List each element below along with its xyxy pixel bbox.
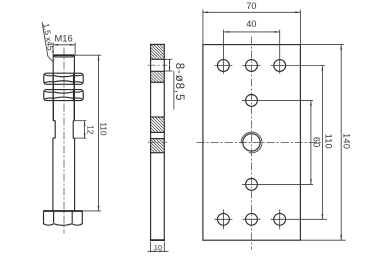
svg-text:10: 10 [154, 243, 162, 252]
hole C3 [274, 213, 286, 225]
svg-text:70: 70 [246, 1, 256, 11]
hex nut 2 [44, 90, 83, 101]
center hole M16 [241, 132, 262, 153]
svg-text:8-ø8,5: 8-ø8,5 [173, 63, 185, 102]
svg-text:40: 40 [246, 19, 256, 29]
110 dimension [322, 66, 324, 220]
centerline bolt [63, 48, 65, 234]
chamfer leader 1,5x45 [42, 22, 48, 57]
40 dimension [223, 31, 279, 33]
neck [54, 121, 56, 138]
hole A2 [246, 60, 258, 72]
vertical centerline column [251, 37, 253, 250]
neck step bottom [53, 137, 56, 139]
140 dimension [340, 45, 342, 241]
svg-text:12: 12 [86, 125, 95, 135]
hole A1 [218, 60, 230, 72]
shaft [52, 138, 54, 211]
svg-text:110: 110 [98, 122, 108, 136]
side view outline [151, 44, 165, 240]
hex nut 1 [44, 73, 83, 84]
hatch band 1 [151, 44, 164, 59]
10 dimension [147, 242, 168, 253]
8-o8,5 callout [164, 59, 174, 109]
centerline middle [148, 141, 168, 143]
hex head [43, 211, 82, 225]
svg-text:140: 140 [342, 133, 352, 149]
70 dimension [203, 10, 301, 45]
stud threaded body [53, 55, 75, 121]
svg-text:M16: M16 [55, 33, 73, 43]
hatch band 2 [151, 71, 164, 82]
hole C1 [218, 213, 230, 225]
M16 dimension [53, 43, 75, 55]
hole C2 [246, 213, 258, 225]
12 dimension [74, 121, 86, 138]
60 dimension [310, 100, 312, 184]
hole B2 [246, 179, 258, 191]
stud below nut2 [52, 101, 54, 121]
svg-text:60: 60 [312, 137, 322, 148]
center marks [214, 30, 326, 230]
plate outline [203, 45, 301, 241]
hole edge lines [151, 58, 165, 60]
neck step top [53, 120, 55, 122]
plate edge extension lines [300, 44, 343, 46]
hole A3 [274, 60, 286, 72]
svg-text:110: 110 [324, 134, 334, 149]
hole B1 [246, 95, 258, 107]
horizontal centerline [197, 141, 322, 143]
110 dimension (bolt) [75, 55, 102, 211]
hatch band 3 [151, 117, 164, 132]
hole centerline top [148, 64, 168, 66]
hatch band 4 [151, 139, 164, 153]
stud between nuts [52, 84, 54, 89]
